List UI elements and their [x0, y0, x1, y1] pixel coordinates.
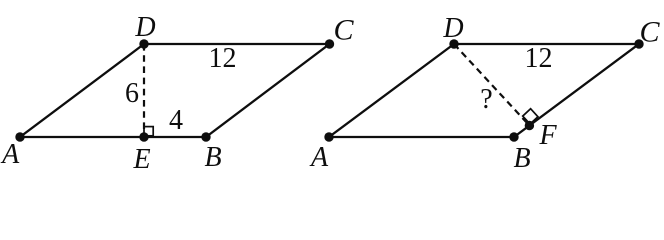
svg-text:B: B — [513, 143, 530, 174]
svg-text:D: D — [134, 12, 155, 43]
svg-text:4: 4 — [169, 105, 183, 136]
svg-text:?: ? — [480, 84, 492, 115]
svg-text:C: C — [333, 14, 354, 47]
svg-text:C: C — [639, 16, 660, 49]
svg-text:A: A — [309, 142, 329, 173]
svg-text:D: D — [442, 13, 463, 44]
svg-text:E: E — [132, 144, 150, 175]
svg-text:6: 6 — [125, 78, 139, 109]
svg-text:12: 12 — [525, 43, 553, 74]
svg-text:A: A — [0, 139, 20, 170]
svg-text:12: 12 — [209, 43, 237, 74]
svg-text:B: B — [204, 142, 221, 173]
svg-text:F: F — [538, 120, 557, 151]
